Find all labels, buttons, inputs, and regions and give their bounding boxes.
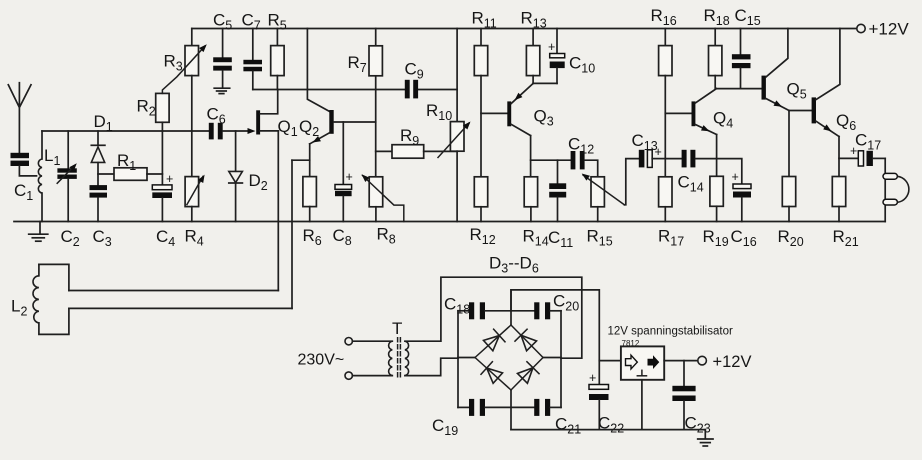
capacitor C13 (electrolytic)	[639, 145, 666, 167]
capacitor C17 (electrolytic)	[839, 144, 885, 166]
resistor R11	[474, 29, 487, 177]
diode D1	[91, 131, 105, 185]
capacitor C15	[732, 29, 751, 89]
inductor L1	[38, 131, 42, 222]
capacitor C22 (electrolytic)	[589, 371, 609, 430]
capacitor C3	[90, 185, 108, 221]
wire: Q3 base line	[481, 112, 507, 114]
resistor R20	[782, 111, 795, 222]
svg-text:+: +	[732, 170, 739, 184]
wire: bridge right vertex tap	[543, 357, 561, 359]
capacitor C20	[534, 302, 561, 319]
wire: bridge top vertex / DC+ riser	[511, 290, 599, 384]
svg-text:+: +	[589, 371, 596, 385]
transformer T	[389, 338, 409, 379]
svg-text:12V spanningstabilisator: 12V spanningstabilisator	[608, 326, 733, 338]
svg-text:T: T	[392, 319, 402, 338]
svg-text:230V~: 230V~	[298, 352, 345, 369]
capacitor C4 (electrolytic)	[152, 172, 173, 222]
wire: jog to L2 lower winding (crosses bus)	[292, 160, 310, 308]
capacitor C5	[213, 29, 232, 88]
resistor R18	[709, 29, 722, 89]
diode D3 (upper-left)	[475, 325, 511, 358]
transistor Q2	[310, 110, 376, 144]
svg-text:+: +	[166, 172, 173, 186]
wire: Q2 emitter to R6	[309, 144, 311, 177]
diode D5 (lower-left)	[475, 358, 511, 391]
variable resistor R15 (volume)	[582, 159, 639, 222]
mains terminal (bottom)	[345, 372, 392, 379]
+12V output terminal	[698, 356, 707, 365]
wire: bridge left vertex tap	[458, 357, 475, 359]
resistor R16	[659, 29, 672, 177]
regulator output wire	[664, 360, 698, 362]
capacitor C9	[405, 80, 418, 99]
inductor L2 (feedback winding)	[33, 264, 69, 334]
antenna	[8, 83, 31, 153]
capacitor C7	[243, 29, 262, 90]
psu ground symbol	[698, 430, 713, 446]
wire: L2 bottom winding to Q2 emitter	[69, 307, 292, 309]
wire: Q3 collector node	[531, 136, 571, 177]
wire: R2/C4 vertical	[161, 131, 163, 185]
capacitor C14	[665, 150, 716, 168]
resistor R19	[710, 176, 723, 221]
svg-text:+12V: +12V	[869, 20, 910, 39]
wire: Q2 collector from rail	[307, 29, 329, 112]
capacitor C19	[458, 399, 534, 416]
svg-text:D3--D6: D3--D6	[489, 254, 539, 276]
variable resistor R8	[362, 174, 404, 221]
psu ground bus	[511, 429, 705, 431]
transistor Q4	[665, 89, 716, 135]
regulator U1 (7812)	[599, 346, 664, 429]
svg-text:+: +	[548, 40, 555, 54]
wire: Q1 emitter down to L2 (crosses bus)	[277, 131, 279, 291]
diode D6 (lower-right)	[511, 358, 543, 391]
variable resistor R4	[185, 131, 205, 222]
diode D4 (upper-right)	[511, 325, 543, 358]
resistor R2	[156, 93, 169, 131]
capacitor C10 (electrolytic)	[548, 29, 565, 84]
capacitor C16 (electrolytic)	[717, 159, 751, 222]
capacitor C1	[11, 153, 37, 176]
resistor R12	[474, 177, 487, 222]
wire: secondary top to bridge right vertex	[405, 277, 582, 358]
resistor R9	[376, 145, 457, 159]
variable capacitor C2	[57, 131, 77, 222]
transistor Q6	[812, 29, 840, 137]
capacitor C11	[549, 160, 566, 221]
capacitor C18	[458, 302, 534, 319]
wire: bridge bottom vertex to psu ground bus	[510, 390, 512, 430]
wire: detector line	[42, 130, 209, 132]
transistor Q1	[248, 90, 279, 135]
bridge rectifier frame (left edge)	[457, 311, 459, 408]
ground bus (bottom of main circuit)	[14, 221, 885, 223]
earphone	[883, 158, 909, 221]
capacitor C23	[672, 361, 695, 430]
node line: Q4 collector to Q5 base	[716, 88, 761, 90]
resistor R13	[526, 29, 557, 84]
resistor R1	[98, 168, 162, 181]
wire: L2 top winding to Q1 emitter	[69, 290, 278, 292]
diode D2	[229, 131, 243, 222]
capacitor C6	[209, 123, 248, 140]
capacitor C21	[534, 399, 561, 416]
variable resistor R10	[438, 29, 471, 222]
resistor R6	[303, 177, 317, 222]
resistor R21	[832, 137, 845, 222]
variable resistor R3	[162, 29, 206, 132]
capacitor C12	[571, 151, 598, 177]
resistor R7	[369, 29, 382, 177]
+12V rail (top)	[192, 24, 865, 32]
wire: Q4 emitter vertical	[716, 135, 718, 177]
ground under C5	[214, 88, 230, 93]
capacitor C8 (electrolytic)	[335, 122, 353, 222]
resistor R14	[524, 177, 537, 222]
svg-text:+12V: +12V	[713, 353, 752, 371]
resistor R17	[659, 177, 672, 222]
bridge rectifier frame (right edge)	[560, 311, 562, 408]
node line: Q1 collector / C7 / R5 to C9	[253, 89, 457, 91]
transistor Q3 (PNP)	[507, 83, 533, 135]
main ground symbol	[29, 222, 48, 242]
mains terminal (top)	[345, 338, 392, 345]
transistor Q5	[762, 29, 812, 111]
resistor R5	[271, 29, 284, 90]
svg-text:+: +	[346, 170, 353, 184]
wire: secondary bottom to bridge left vertex	[405, 358, 458, 375]
